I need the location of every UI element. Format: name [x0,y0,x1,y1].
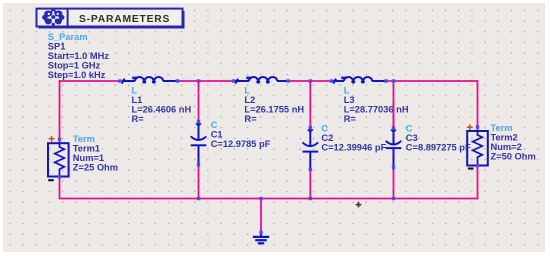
svg-text:C: C [406,124,413,134]
svg-text:R=: R= [132,114,145,124]
svg-text:R=: R= [344,114,357,124]
svg-text:S-PARAMETERS: S-PARAMETERS [79,14,170,25]
svg-text:C=12.39946 pF: C=12.39946 pF [321,143,386,153]
svg-text:R=: R= [244,114,257,124]
svg-text:Z=50 Ohm: Z=50 Ohm [491,152,536,162]
svg-text:Num=2: Num=2 [491,142,522,152]
svg-text:C=12.9785 pF: C=12.9785 pF [211,139,271,149]
svg-text:C=8.897275 pF: C=8.897275 pF [406,143,471,153]
svg-text:SP1: SP1 [48,41,66,51]
svg-text:C: C [321,124,328,134]
svg-text:Z=25 Ohm: Z=25 Ohm [73,162,118,172]
svg-text:Step=1.0 kHz: Step=1.0 kHz [48,70,106,80]
